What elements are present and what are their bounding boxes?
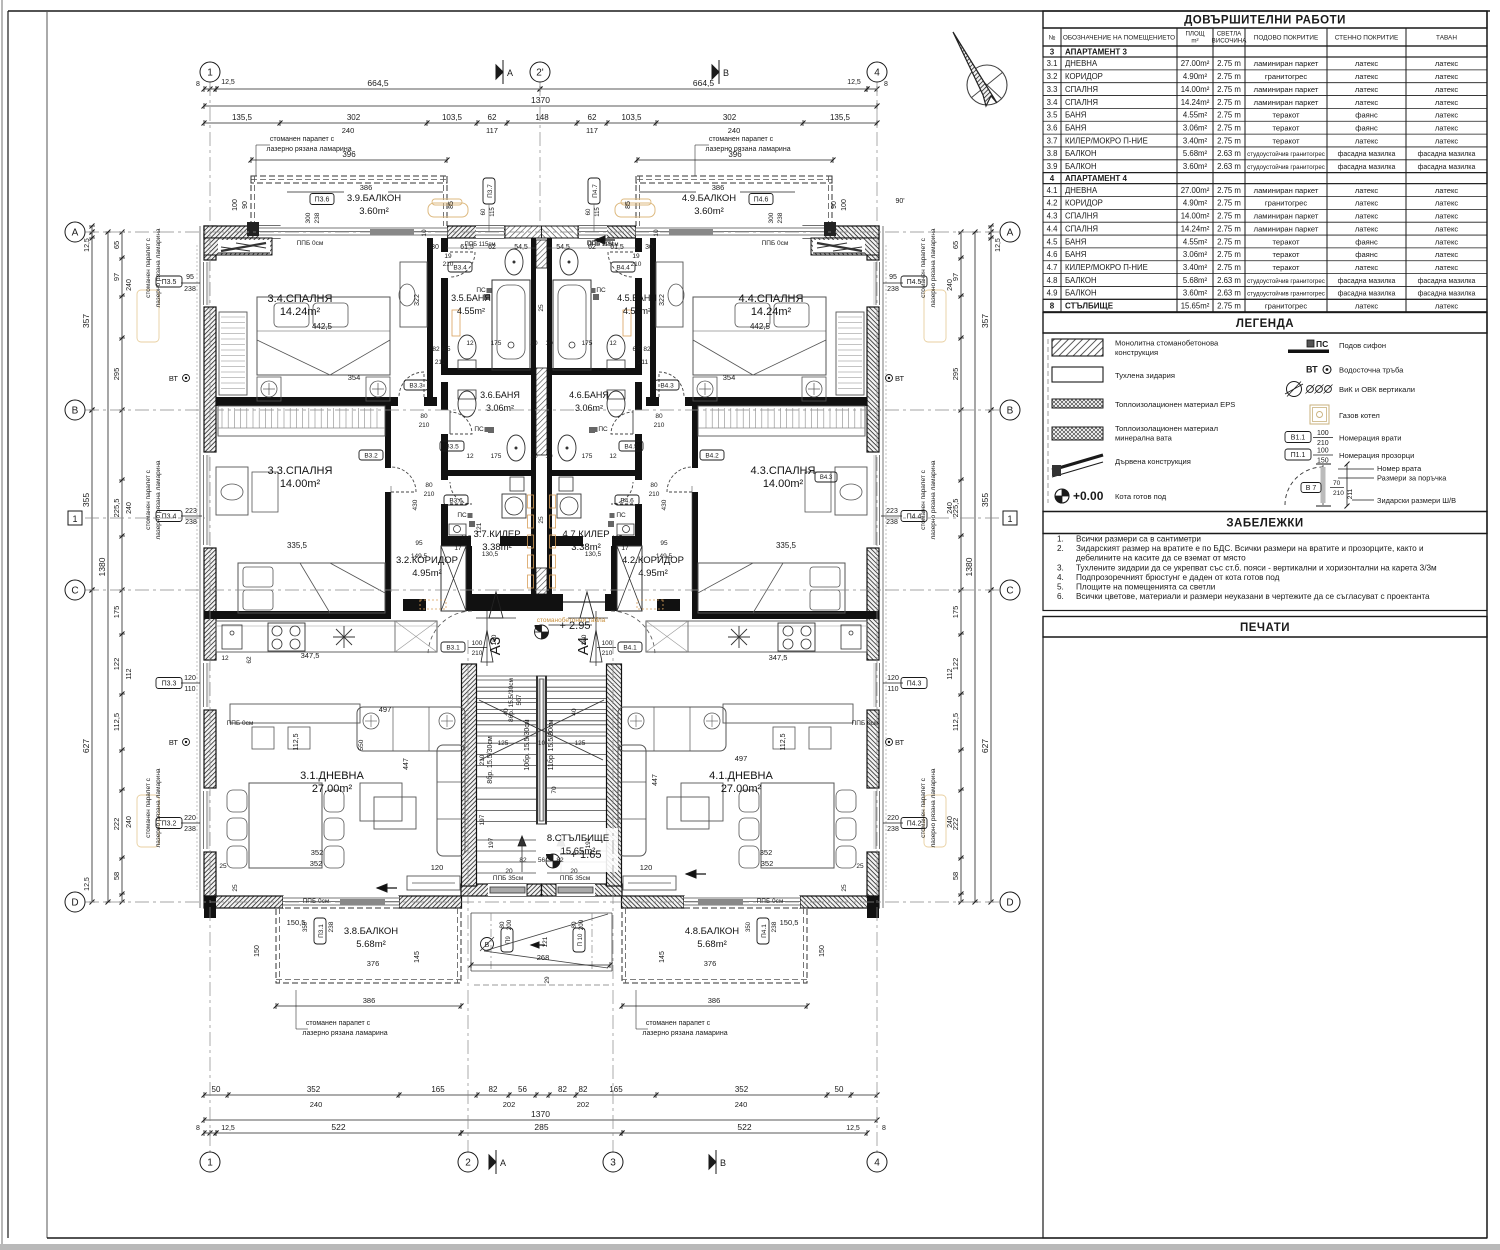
svg-text:ВТ: ВТ bbox=[895, 738, 905, 747]
notes body bbox=[1043, 534, 1487, 611]
grid bubble 2' bbox=[530, 62, 550, 82]
svg-text:62: 62 bbox=[588, 113, 597, 122]
marker В4.2 bbox=[700, 450, 724, 460]
svg-text:3.5: 3.5 bbox=[1047, 111, 1059, 120]
svg-text:4.7: 4.7 bbox=[1047, 263, 1058, 272]
svg-text:210: 210 bbox=[479, 754, 486, 765]
svg-text:355: 355 bbox=[980, 493, 990, 507]
svg-text:лазерно рязана ламарина: лазерно рязана ламарина bbox=[642, 1030, 727, 1037]
svg-text:396: 396 bbox=[728, 150, 742, 159]
svg-text:3.06m²: 3.06m² bbox=[575, 403, 603, 413]
svg-text:П1.1: П1.1 bbox=[1291, 452, 1306, 459]
svg-text:ВИСОЧИНА: ВИСОЧИНА bbox=[1212, 38, 1248, 45]
svg-text:1370: 1370 bbox=[531, 1109, 550, 1119]
svg-text:350: 350 bbox=[746, 921, 752, 932]
svg-text:2.63 m: 2.63 m bbox=[1217, 162, 1241, 171]
stair arrow bbox=[521, 840, 523, 872]
svg-text:220: 220 bbox=[887, 815, 899, 822]
svg-text:10: 10 bbox=[545, 453, 553, 460]
svg-text:125: 125 bbox=[575, 740, 586, 747]
svg-text:2.75 m: 2.75 m bbox=[1217, 263, 1241, 272]
svg-text:ЛЕГЕНДА: ЛЕГЕНДА bbox=[1236, 318, 1294, 330]
marker П4.2 bbox=[901, 818, 927, 829]
svg-text:СПАЛНЯ: СПАЛНЯ bbox=[1065, 98, 1098, 107]
svg-text:121: 121 bbox=[542, 936, 549, 947]
bed 3.3 bbox=[238, 563, 385, 613]
svg-text:П4.2: П4.2 bbox=[907, 821, 922, 828]
svg-text:112,5: 112,5 bbox=[112, 713, 121, 731]
svg-text:125: 125 bbox=[498, 740, 509, 747]
svg-text:теракот: теракот bbox=[1272, 136, 1300, 145]
svg-text:82: 82 bbox=[558, 1085, 567, 1094]
svg-text:210: 210 bbox=[1333, 490, 1344, 497]
grid axis B bbox=[85, 409, 1000, 411]
svg-text:120: 120 bbox=[431, 863, 444, 872]
svg-text:фасадна мазилка: фасадна мазилка bbox=[1338, 151, 1396, 158]
svg-text:175: 175 bbox=[491, 453, 502, 460]
svg-text:12: 12 bbox=[221, 655, 229, 662]
exterior wall: left side bbox=[199, 226, 201, 908]
svg-text:447: 447 bbox=[652, 774, 659, 786]
balcony top hatched pier bbox=[247, 222, 259, 236]
svg-text:латекс: латекс bbox=[1355, 72, 1379, 81]
svg-text:82: 82 bbox=[489, 1085, 498, 1094]
svg-text:П4.7: П4.7 bbox=[592, 184, 599, 198]
svg-text:210: 210 bbox=[649, 491, 660, 498]
svg-text:664,5: 664,5 bbox=[693, 78, 715, 88]
table row 4.1 bbox=[1043, 196, 1487, 198]
wardrobe 3.4 bbox=[219, 312, 247, 395]
svg-text:497: 497 bbox=[735, 754, 748, 763]
svg-text:210: 210 bbox=[472, 650, 483, 657]
3.7 sink bbox=[449, 524, 466, 535]
marker П3.1 balcony bbox=[314, 918, 326, 944]
svg-text:ламиниран паркет: ламиниран паркет bbox=[1254, 224, 1319, 233]
table row 4.2 bbox=[1043, 208, 1487, 210]
svg-text:В4.3: В4.3 bbox=[660, 382, 674, 389]
svg-text:конструкция: конструкция bbox=[1115, 348, 1158, 357]
svg-text:В3.4: В3.4 bbox=[453, 264, 467, 271]
svg-text:ППБ 0см: ППБ 0см bbox=[852, 720, 879, 727]
svg-text:80: 80 bbox=[571, 921, 578, 928]
svg-text:П3.1: П3.1 bbox=[318, 924, 325, 938]
svg-text:латекс: латекс bbox=[1435, 212, 1459, 221]
svg-text:2.75 m: 2.75 m bbox=[1217, 111, 1241, 120]
right dimension chain bbox=[990, 226, 992, 238]
axis 1 square marker left bbox=[68, 511, 82, 525]
svg-text:62: 62 bbox=[588, 244, 596, 251]
svg-text:ППБ 0см: ППБ 0см bbox=[757, 898, 784, 905]
svg-text:стоманен парапет с: стоманен парапет с bbox=[145, 777, 152, 838]
svg-text:70: 70 bbox=[551, 786, 558, 794]
entry door triangle A3 bbox=[481, 630, 493, 662]
svg-text:фаянс: фаянс bbox=[1355, 237, 1378, 246]
svg-text:121: 121 bbox=[476, 522, 483, 533]
marker П3.7 bbox=[483, 178, 495, 204]
svg-text:В: В bbox=[720, 1158, 726, 1168]
svg-text:4.8: 4.8 bbox=[1047, 276, 1058, 285]
svg-text:550: 550 bbox=[358, 739, 365, 750]
grid bubble 1 bbox=[200, 62, 220, 82]
svg-text:3.40m²: 3.40m² bbox=[1183, 136, 1208, 145]
legend item: floor siphon bbox=[1307, 340, 1314, 347]
svg-text:17: 17 bbox=[621, 545, 629, 552]
svg-text:КОРИДОР: КОРИДОР bbox=[1065, 199, 1103, 208]
svg-text:4.9: 4.9 bbox=[1047, 289, 1058, 298]
svg-text:Топлоизолационен материал: Топлоизолационен материал bbox=[1115, 424, 1218, 433]
legend item: finished floor level bbox=[1062, 489, 1069, 496]
svg-text:135,5: 135,5 bbox=[232, 113, 253, 122]
table row 4.4 bbox=[1043, 234, 1487, 236]
svg-text:Номерация врати: Номерация врати bbox=[1339, 434, 1401, 443]
svg-text:1: 1 bbox=[207, 1158, 213, 1169]
svg-text:латекс: латекс bbox=[1435, 301, 1459, 310]
svg-text:12,5: 12,5 bbox=[221, 79, 235, 86]
grid axis D bbox=[85, 901, 1000, 903]
table row 3.5 bbox=[1043, 120, 1487, 122]
svg-text:11бр. 15.5/30см: 11бр. 15.5/30см bbox=[547, 719, 555, 770]
svg-text:В4.3: В4.3 bbox=[820, 475, 833, 481]
svg-text:202: 202 bbox=[503, 1100, 516, 1109]
svg-text:10: 10 bbox=[653, 229, 660, 237]
svg-text:3.8.БАЛКОН: 3.8.БАЛКОН bbox=[344, 926, 398, 937]
svg-text:238: 238 bbox=[314, 212, 321, 223]
svg-text:430: 430 bbox=[661, 499, 668, 510]
kitchen counter bbox=[216, 621, 437, 652]
table row 4.7 bbox=[1043, 273, 1487, 275]
svg-text:14.00m²: 14.00m² bbox=[763, 478, 804, 490]
balcony bottom: parapet bbox=[276, 908, 461, 983]
svg-text:латекс: латекс bbox=[1435, 237, 1459, 246]
marker В3.3 bbox=[404, 380, 428, 390]
svg-text:115: 115 bbox=[490, 207, 496, 217]
svg-text:27.00m²: 27.00m² bbox=[1181, 59, 1210, 68]
svg-text:стоманен парапет с: стоманен парапет с bbox=[306, 1020, 371, 1027]
marker П4.1 balcony bbox=[757, 918, 769, 944]
svg-text:664,5: 664,5 bbox=[367, 78, 389, 88]
svg-text:БАЛКОН: БАЛКОН bbox=[1065, 276, 1097, 285]
svg-text:3.1.ДНЕВНА: 3.1.ДНЕВНА bbox=[300, 770, 364, 782]
corridor bottom wall piece bbox=[403, 599, 426, 611]
svg-text:12,5: 12,5 bbox=[846, 1125, 860, 1132]
svg-text:ламиниран паркет: ламиниран паркет bbox=[1254, 212, 1319, 221]
svg-text:80: 80 bbox=[425, 482, 433, 489]
balcony top dim 396 bbox=[251, 159, 447, 161]
svg-text:ПС: ПС bbox=[598, 426, 608, 433]
svg-text:497: 497 bbox=[379, 705, 392, 714]
svg-text:25: 25 bbox=[232, 884, 239, 892]
svg-text:ДОВЪРШИТЕЛНИ РАБОТИ: ДОВЪРШИТЕЛНИ РАБОТИ bbox=[1184, 15, 1346, 27]
table header row bbox=[1043, 28, 1487, 46]
svg-text:+0.00: +0.00 bbox=[1073, 489, 1104, 503]
svg-text:3.60m²: 3.60m² bbox=[694, 206, 724, 217]
svg-text:175: 175 bbox=[951, 606, 960, 619]
grid bubble А bbox=[65, 222, 85, 242]
marker П9 bbox=[501, 928, 513, 952]
svg-text:2.75 m: 2.75 m bbox=[1217, 212, 1241, 221]
svg-text:65: 65 bbox=[112, 241, 121, 249]
svg-text:240: 240 bbox=[735, 1100, 748, 1109]
nightstand 3.4 a bbox=[257, 377, 281, 401]
svg-text:238: 238 bbox=[184, 286, 196, 293]
svg-text:50: 50 bbox=[212, 1085, 221, 1094]
svg-text:165: 165 bbox=[609, 1085, 623, 1094]
svg-text:238: 238 bbox=[771, 921, 778, 932]
svg-text:95: 95 bbox=[186, 274, 194, 281]
svg-text:4.1: 4.1 bbox=[1047, 186, 1058, 195]
svg-text:теракот: теракот bbox=[1272, 123, 1300, 132]
table group row 4 bbox=[1043, 173, 1487, 184]
svg-text:100: 100 bbox=[472, 640, 483, 647]
svg-text:студоустойчив гранитогрес: студоустойчив гранитогрес bbox=[1247, 278, 1325, 285]
level mark +2.95 bbox=[542, 632, 549, 639]
svg-text:лазерно рязана ламарина: лазерно рязана ламарина bbox=[930, 768, 937, 847]
svg-text:гранитогрес: гранитогрес bbox=[1265, 72, 1307, 81]
wardrobe 3.3 band bbox=[218, 406, 385, 436]
stair diagonal section line bbox=[480, 700, 604, 760]
wall between 3.6 and 3.7 bbox=[441, 470, 536, 476]
svg-text:латекс: латекс bbox=[1355, 59, 1379, 68]
svg-text:4.95m²: 4.95m² bbox=[638, 568, 668, 579]
svg-text:ППБ 0см: ППБ 0см bbox=[227, 720, 254, 727]
svg-text:117: 117 bbox=[486, 126, 498, 135]
svg-text:175: 175 bbox=[582, 340, 593, 347]
svg-text:СТЪЛБИЩЕ: СТЪЛБИЩЕ bbox=[1065, 301, 1114, 310]
marker П3.6 bbox=[310, 194, 334, 205]
svg-text:В4.6: В4.6 bbox=[620, 497, 634, 504]
stair railing center bbox=[537, 676, 546, 824]
svg-text:фасадна мазилка: фасадна мазилка bbox=[1418, 278, 1476, 285]
svg-text:80: 80 bbox=[420, 413, 428, 420]
svg-text:115: 115 bbox=[595, 207, 601, 217]
svg-text:200: 200 bbox=[578, 919, 585, 930]
svg-text:СПАЛНЯ: СПАЛНЯ bbox=[1065, 224, 1098, 233]
svg-text:В 7: В 7 bbox=[1306, 485, 1317, 492]
svg-text:14.24m²: 14.24m² bbox=[751, 306, 792, 318]
svg-text:56: 56 bbox=[538, 857, 546, 864]
table row 3.6 bbox=[1043, 133, 1487, 135]
svg-text:4.55m²: 4.55m² bbox=[457, 306, 485, 316]
svg-text:2.75 m: 2.75 m bbox=[1217, 72, 1241, 81]
grid axis C bbox=[85, 589, 1000, 591]
svg-text:30: 30 bbox=[645, 244, 653, 251]
svg-text:Всички размери са в сантиметри: Всички размери са в сантиметри bbox=[1076, 535, 1201, 544]
svg-text:238: 238 bbox=[777, 212, 784, 223]
3.7 siphon bbox=[469, 521, 475, 527]
svg-text:латекс: латекс bbox=[1355, 199, 1379, 208]
svg-text:теракот: теракот bbox=[1272, 237, 1300, 246]
svg-text:352: 352 bbox=[310, 859, 323, 868]
svg-text:295: 295 bbox=[112, 368, 121, 381]
marker П3.2 bbox=[156, 818, 182, 829]
mirrored right apartment half bbox=[477, 176, 946, 985]
svg-text:П4.6: П4.6 bbox=[754, 197, 769, 204]
svg-text:335,5: 335,5 bbox=[287, 541, 308, 550]
svg-text:20: 20 bbox=[570, 868, 578, 875]
svg-text:Подов сифон: Подов сифон bbox=[1339, 341, 1386, 350]
svg-text:12: 12 bbox=[466, 453, 474, 460]
svg-text:222: 222 bbox=[112, 818, 121, 831]
svg-text:17: 17 bbox=[454, 545, 462, 552]
marker В4.4 bbox=[611, 262, 635, 272]
svg-text:197: 197 bbox=[585, 837, 592, 848]
svg-text:442,5: 442,5 bbox=[750, 322, 771, 331]
table row 4.3 bbox=[1043, 221, 1487, 223]
svg-text:202: 202 bbox=[577, 1100, 590, 1109]
svg-text:268: 268 bbox=[537, 953, 550, 962]
svg-text:14.24m²: 14.24m² bbox=[280, 306, 321, 318]
svg-text:197: 197 bbox=[488, 837, 495, 848]
svg-text:ПС: ПС bbox=[474, 426, 484, 433]
svg-text:латекс: латекс bbox=[1355, 224, 1379, 233]
section marker A bottom bbox=[489, 1155, 496, 1169]
svg-text:4.8.БАЛКОН: 4.8.БАЛКОН bbox=[685, 926, 739, 937]
center shaft hatched bbox=[536, 240, 547, 268]
section marker B top bbox=[712, 65, 719, 79]
svg-text:Всички цветове, материали и ра: Всички цветове, материали и размери неук… bbox=[1076, 592, 1430, 601]
legend item: brick masonry bbox=[1052, 367, 1103, 382]
svg-text:210: 210 bbox=[424, 491, 435, 498]
svg-text:335,5: 335,5 bbox=[776, 541, 797, 550]
svg-text:357: 357 bbox=[81, 314, 91, 328]
wall between 3.5 and 3.6 bbox=[441, 368, 536, 375]
svg-text:гранитогрес: гранитогрес bbox=[1265, 301, 1307, 310]
stair bottom landing treads bbox=[477, 839, 536, 841]
svg-text:4.7.КИЛЕР: 4.7.КИЛЕР bbox=[562, 529, 609, 540]
svg-text:150,5: 150,5 bbox=[780, 918, 799, 927]
svg-text:Тухлените зидарии да се укрепв: Тухлените зидарии да се укрепват със ст.… bbox=[1076, 563, 1437, 572]
radiator left wall bedroom3.4 bbox=[137, 290, 159, 342]
svg-text:240: 240 bbox=[126, 502, 133, 514]
svg-text:латекс: латекс bbox=[1355, 98, 1379, 107]
svg-text:ПОДОВО ПОКРИТИЕ: ПОДОВО ПОКРИТИЕ bbox=[1254, 35, 1318, 42]
svg-text:10: 10 bbox=[545, 340, 553, 347]
svg-text:фаянс: фаянс bbox=[1355, 250, 1378, 259]
svg-text:100: 100 bbox=[1317, 448, 1329, 455]
svg-text:197: 197 bbox=[479, 814, 486, 825]
top dimension chain 2 bbox=[204, 105, 877, 107]
svg-text:120: 120 bbox=[184, 675, 196, 682]
svg-text:12,5: 12,5 bbox=[84, 238, 91, 252]
svg-text:фасадна мазилка: фасадна мазилка bbox=[1338, 291, 1396, 298]
table row 3.8 bbox=[1043, 159, 1487, 161]
legend item: plumbing risers bbox=[1287, 382, 1302, 397]
svg-text:4.3.СПАЛНЯ: 4.3.СПАЛНЯ bbox=[751, 465, 816, 477]
marker В3.1 bbox=[441, 642, 465, 652]
svg-text:дебелините на касите да се взе: дебелините на касите да се вземат от мяс… bbox=[1076, 554, 1246, 563]
svg-text:КИЛЕР/МОКРО П-НИЕ: КИЛЕР/МОКРО П-НИЕ bbox=[1065, 136, 1148, 145]
svg-text:4.55m²: 4.55m² bbox=[1183, 111, 1208, 120]
svg-text:латекс: латекс bbox=[1435, 85, 1459, 94]
svg-text:В3.3: В3.3 bbox=[409, 382, 423, 389]
svg-text:№: № bbox=[1049, 35, 1056, 42]
grid bubble 1 bbox=[200, 1152, 220, 1172]
svg-text:442,5: 442,5 bbox=[312, 322, 333, 331]
desk 3.4 bbox=[400, 262, 427, 327]
desk 3.3 bbox=[216, 467, 248, 515]
svg-text:латекс: латекс bbox=[1355, 136, 1379, 145]
svg-text:БАЛКОН: БАЛКОН bbox=[1065, 289, 1097, 298]
svg-text:5б7: 5б7 bbox=[515, 694, 523, 705]
svg-text:5.: 5. bbox=[1057, 583, 1064, 592]
interior wall: between 3.4 and 3.3 bbox=[216, 397, 398, 406]
svg-text:240: 240 bbox=[728, 126, 741, 135]
svg-text:103,5: 103,5 bbox=[621, 113, 642, 122]
svg-text:302: 302 bbox=[347, 113, 361, 122]
grid bubble 4 bbox=[867, 62, 887, 82]
svg-text:150,5: 150,5 bbox=[287, 918, 306, 927]
svg-text:240: 240 bbox=[947, 502, 954, 514]
svg-text:СПАЛНЯ: СПАЛНЯ bbox=[1065, 212, 1098, 221]
grid bubble В bbox=[1000, 400, 1020, 420]
svg-text:82: 82 bbox=[519, 857, 527, 864]
svg-text:2.75 m: 2.75 m bbox=[1217, 98, 1241, 107]
svg-text:4.6.БАНЯ: 4.6.БАНЯ bbox=[569, 390, 609, 400]
landing top wall bbox=[472, 594, 606, 611]
svg-text:3: 3 bbox=[1050, 47, 1055, 56]
svg-text:1380: 1380 bbox=[97, 557, 107, 576]
legend title bbox=[1043, 313, 1487, 334]
svg-text:85: 85 bbox=[625, 201, 632, 209]
svg-text:лазерно рязана ламарина: лазерно рязана ламарина bbox=[930, 460, 937, 539]
dim ticks interior top bbox=[447, 247, 537, 249]
marker В4.3b bbox=[815, 472, 837, 482]
bath 3.5 sink bbox=[505, 249, 523, 275]
svg-text:3.60m²: 3.60m² bbox=[1183, 289, 1208, 298]
svg-text:238: 238 bbox=[184, 826, 196, 833]
svg-text:3.9: 3.9 bbox=[1047, 162, 1058, 171]
svg-text:238: 238 bbox=[328, 921, 335, 932]
svg-text:ВТ: ВТ bbox=[895, 374, 905, 383]
section marker A top bbox=[496, 65, 503, 79]
svg-text:54,5: 54,5 bbox=[556, 244, 570, 251]
svg-text:90: 90 bbox=[831, 201, 838, 209]
svg-text:3.7: 3.7 bbox=[1047, 136, 1058, 145]
svg-text:90: 90 bbox=[242, 201, 249, 209]
svg-text:4.90m²: 4.90m² bbox=[1183, 72, 1208, 81]
svg-text:295: 295 bbox=[951, 368, 960, 381]
marker П4.3 bbox=[901, 678, 927, 689]
svg-text:97: 97 bbox=[112, 273, 121, 281]
svg-text:П4.3: П4.3 bbox=[907, 681, 922, 688]
porch outline bbox=[471, 912, 542, 914]
svg-text:+ 1.65: + 1.65 bbox=[571, 849, 602, 861]
left dimension chain outer bbox=[91, 226, 93, 238]
svg-text:130,5: 130,5 bbox=[585, 551, 602, 558]
svg-text:2.75 m: 2.75 m bbox=[1217, 199, 1241, 208]
svg-text:14.24m²: 14.24m² bbox=[1181, 224, 1210, 233]
svg-text:90': 90' bbox=[895, 198, 904, 205]
svg-text:3.5.БАНЯ: 3.5.БАНЯ bbox=[451, 293, 491, 303]
svg-text:56: 56 bbox=[518, 1085, 527, 1094]
svg-text:19: 19 bbox=[632, 253, 640, 260]
svg-text:2.63 m: 2.63 m bbox=[1217, 276, 1241, 285]
svg-text:П3.6: П3.6 bbox=[315, 197, 330, 204]
svg-text:латекс: латекс bbox=[1355, 263, 1379, 272]
marker В4.3 bbox=[655, 380, 679, 390]
svg-text:ПС: ПС bbox=[596, 287, 606, 294]
svg-text:130,5: 130,5 bbox=[482, 551, 499, 558]
svg-text:лазерно рязана ламарина: лазерно рязана ламарина bbox=[705, 146, 790, 153]
svg-text:ПС: ПС bbox=[457, 512, 467, 519]
svg-text:4: 4 bbox=[1050, 174, 1055, 183]
marker В3.2 bbox=[359, 450, 383, 460]
marker B bubble porch bbox=[481, 938, 494, 951]
svg-text:6.: 6. bbox=[1057, 592, 1064, 601]
svg-text:В: В bbox=[723, 68, 729, 78]
svg-text:3.6: 3.6 bbox=[1047, 123, 1058, 132]
svg-text:29: 29 bbox=[544, 976, 551, 984]
